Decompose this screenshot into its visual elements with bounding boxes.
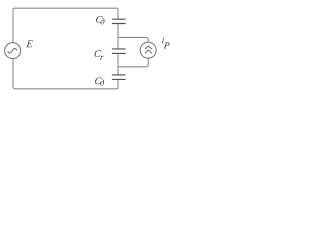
label E xyxy=(26,41,33,48)
label Cг (middle) xyxy=(94,50,103,60)
label iP xyxy=(162,37,170,48)
current meter iP (circle with double chevron) xyxy=(140,42,156,58)
wire: column segment between Cг and Cд(bottom) xyxy=(117,53,119,74)
capacitor Cд (bottom) plates xyxy=(112,75,126,80)
circuit schematic: AC source E driving series capacitors Cд, Cг, Cд with current meter iP branch xyxy=(0,0,173,96)
wire: top branch from node between Cд(top) and Cг to meter xyxy=(118,37,148,42)
capacitor Cг (middle) plates xyxy=(112,49,126,54)
capacitor Cд (top) plates xyxy=(112,19,126,23)
AC source E xyxy=(5,43,21,59)
sine wave inside source xyxy=(8,48,17,52)
label Cд (bottom) xyxy=(95,77,104,85)
wire: top loop (left rail top + top rail into capacitor column) xyxy=(13,8,118,42)
chevrons inside meter xyxy=(145,46,152,53)
wire: bottom branch from meter to node between Cг and Cд(bottom) xyxy=(118,58,148,66)
label Cд (top) xyxy=(96,16,104,24)
wire: column segment between capacitor Cд(top) and Cг xyxy=(117,23,119,48)
wire: bottom loop (left rail bottom + bottom rail into capacitor column) xyxy=(13,59,118,89)
